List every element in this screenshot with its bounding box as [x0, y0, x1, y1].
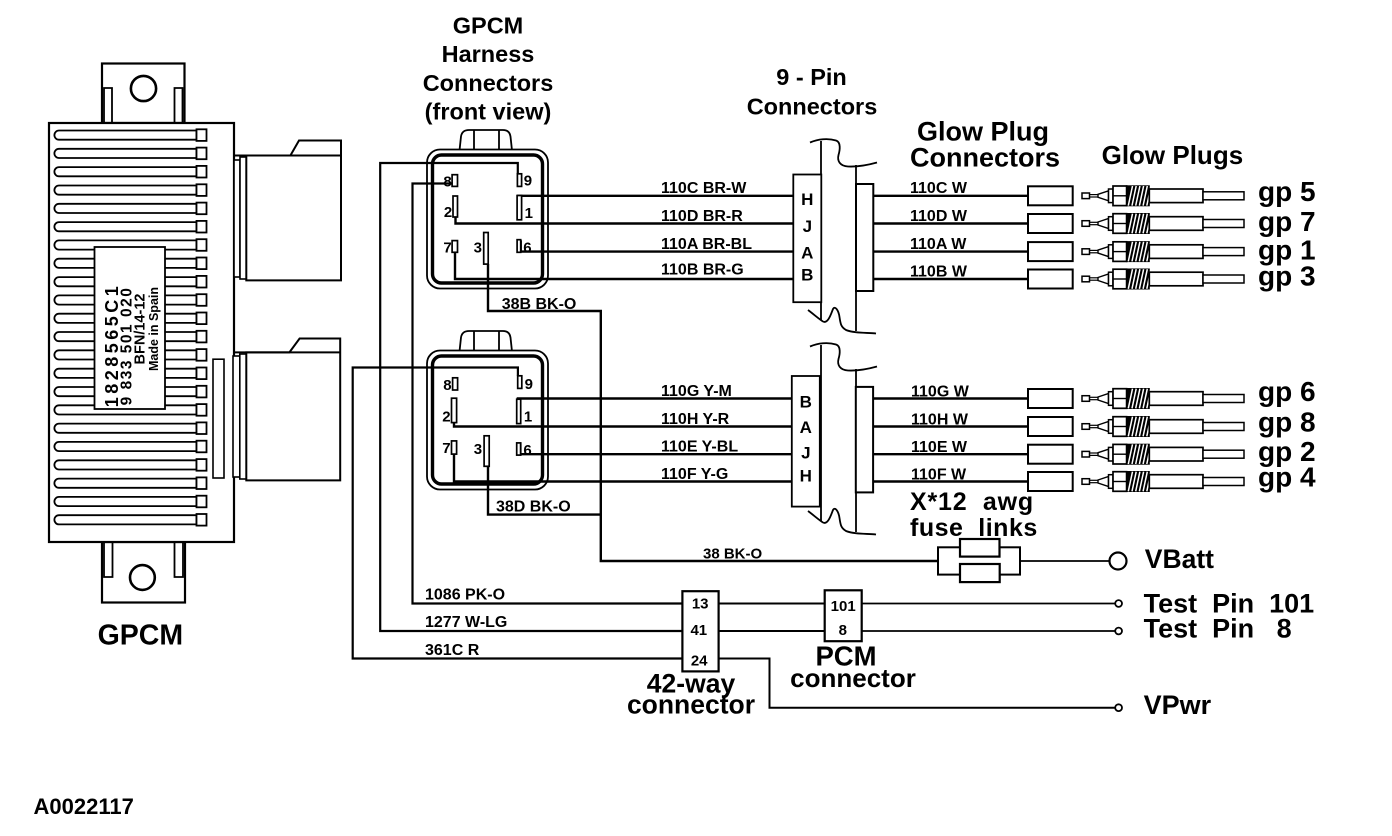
- svg-text:VBatt: VBatt: [1145, 544, 1214, 574]
- svg-text:3: 3: [474, 239, 482, 256]
- svg-text:connector: connector: [627, 690, 755, 720]
- svg-text:connector: connector: [790, 663, 916, 693]
- svg-text:110H W: 110H W: [911, 412, 969, 429]
- svg-text:(front view): (front view): [425, 99, 552, 125]
- svg-text:8: 8: [443, 377, 451, 394]
- svg-text:gp 8: gp 8: [1258, 407, 1316, 438]
- svg-text:Glow Plugs: Glow Plugs: [1102, 140, 1244, 170]
- svg-text:38 BK-O: 38 BK-O: [703, 546, 763, 563]
- svg-text:361C R: 361C R: [425, 642, 480, 659]
- svg-text:B: B: [800, 393, 812, 412]
- svg-text:Test Pin 8: Test Pin 8: [1144, 614, 1292, 644]
- svg-text:A0022117: A0022117: [34, 794, 134, 819]
- svg-text:110G W: 110G W: [911, 384, 970, 401]
- svg-text:24: 24: [691, 652, 708, 669]
- svg-text:gp 7: gp 7: [1258, 206, 1316, 237]
- svg-text:A: A: [800, 418, 812, 437]
- svg-text:13: 13: [692, 595, 709, 612]
- svg-text:gp 5: gp 5: [1258, 176, 1316, 207]
- svg-text:A: A: [801, 243, 813, 262]
- svg-text:gp 3: gp 3: [1258, 261, 1316, 292]
- svg-text:110E Y-BL: 110E Y-BL: [661, 439, 738, 456]
- svg-text:9 - Pin: 9 - Pin: [776, 64, 847, 90]
- svg-text:110B BR-G: 110B BR-G: [661, 262, 744, 279]
- svg-text:H: H: [800, 466, 812, 485]
- svg-text:2: 2: [444, 204, 452, 221]
- svg-text:X*12 awg: X*12 awg: [910, 488, 1034, 516]
- svg-text:110B W: 110B W: [910, 264, 968, 281]
- svg-text:110E W: 110E W: [911, 439, 968, 456]
- svg-text:110D BR-R: 110D BR-R: [661, 208, 743, 225]
- svg-text:GPCM: GPCM: [98, 620, 184, 652]
- svg-text:110F W: 110F W: [911, 467, 967, 484]
- svg-text:38B BK-O: 38B BK-O: [502, 296, 577, 313]
- svg-text:7: 7: [443, 239, 451, 256]
- svg-text:110H Y-R: 110H Y-R: [661, 411, 730, 428]
- svg-text:J: J: [803, 217, 812, 236]
- svg-text:H: H: [801, 190, 813, 209]
- svg-text:VPwr: VPwr: [1144, 690, 1212, 720]
- svg-text:110G Y-M: 110G Y-M: [661, 383, 732, 400]
- svg-text:gp 6: gp 6: [1258, 376, 1316, 407]
- svg-text:Made in Spain: Made in Spain: [147, 287, 161, 371]
- svg-text:1: 1: [524, 409, 532, 426]
- svg-text:2: 2: [442, 409, 450, 426]
- svg-text:fuse links: fuse links: [910, 514, 1038, 542]
- svg-text:3: 3: [474, 441, 482, 458]
- svg-text:8: 8: [839, 622, 847, 639]
- svg-text:J: J: [801, 443, 810, 462]
- svg-text:1086 PK-O: 1086 PK-O: [425, 587, 505, 604]
- svg-text:Connectors: Connectors: [910, 142, 1060, 172]
- svg-text:101: 101: [831, 598, 856, 615]
- svg-text:Harness: Harness: [442, 41, 535, 67]
- svg-text:GPCM: GPCM: [453, 12, 524, 38]
- svg-text:1277 W-LG: 1277 W-LG: [425, 614, 507, 631]
- svg-text:38D BK-O: 38D BK-O: [496, 499, 571, 516]
- svg-text:41: 41: [690, 622, 707, 639]
- svg-text:8: 8: [443, 173, 451, 190]
- svg-text:110D W: 110D W: [910, 208, 968, 225]
- svg-text:9: 9: [525, 376, 533, 393]
- svg-text:110A W: 110A W: [910, 236, 967, 253]
- svg-text:6: 6: [523, 239, 531, 256]
- svg-text:Connectors: Connectors: [747, 94, 878, 120]
- svg-text:B: B: [801, 265, 813, 284]
- svg-text:6: 6: [523, 442, 531, 459]
- svg-text:110F Y-G: 110F Y-G: [661, 466, 728, 483]
- svg-text:7: 7: [442, 440, 450, 457]
- svg-text:110A BR-BL: 110A BR-BL: [661, 236, 752, 253]
- svg-text:110C BR-W: 110C BR-W: [661, 180, 747, 197]
- svg-text:110C W: 110C W: [910, 180, 968, 197]
- svg-text:gp 4: gp 4: [1258, 462, 1316, 493]
- svg-text:1: 1: [525, 205, 533, 222]
- svg-text:Connectors: Connectors: [423, 70, 554, 96]
- svg-text:9: 9: [524, 173, 532, 190]
